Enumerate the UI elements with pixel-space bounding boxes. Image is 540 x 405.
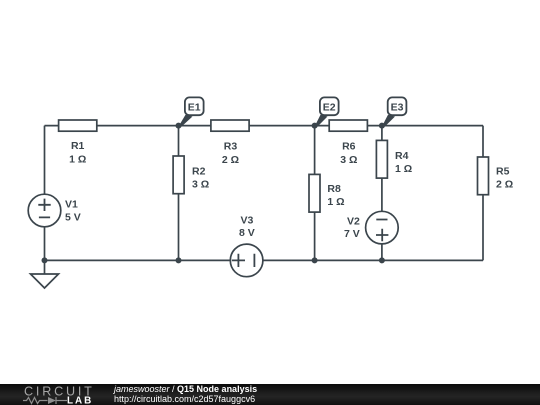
svg-text:LAB: LAB [67,396,93,405]
svg-text:1 Ω: 1 Ω [395,163,412,175]
svg-text:5 V: 5 V [65,212,81,224]
svg-text:8 V: 8 V [239,227,255,239]
svg-text:R8: R8 [327,183,341,195]
svg-text:R3: R3 [224,141,238,153]
svg-text:R1: R1 [71,140,85,152]
svg-text:V1: V1 [65,199,78,211]
svg-text:2 Ω: 2 Ω [222,154,239,166]
svg-text:R2: R2 [192,166,206,178]
svg-text:E1: E1 [188,101,201,113]
svg-text:3 Ω: 3 Ω [192,179,209,191]
svg-text:R6: R6 [342,141,356,153]
svg-text:1 Ω: 1 Ω [69,153,86,165]
svg-text:E3: E3 [391,101,404,113]
svg-text:2 Ω: 2 Ω [496,179,513,191]
svg-text:V2: V2 [347,216,360,228]
svg-text:3 Ω: 3 Ω [340,154,357,166]
svg-text:7 V: 7 V [344,228,360,240]
svg-text:1 Ω: 1 Ω [327,196,344,208]
svg-text:E2: E2 [323,101,336,113]
svg-text:V3: V3 [240,215,253,227]
svg-text:R5: R5 [496,165,510,177]
svg-text:R4: R4 [395,150,409,162]
